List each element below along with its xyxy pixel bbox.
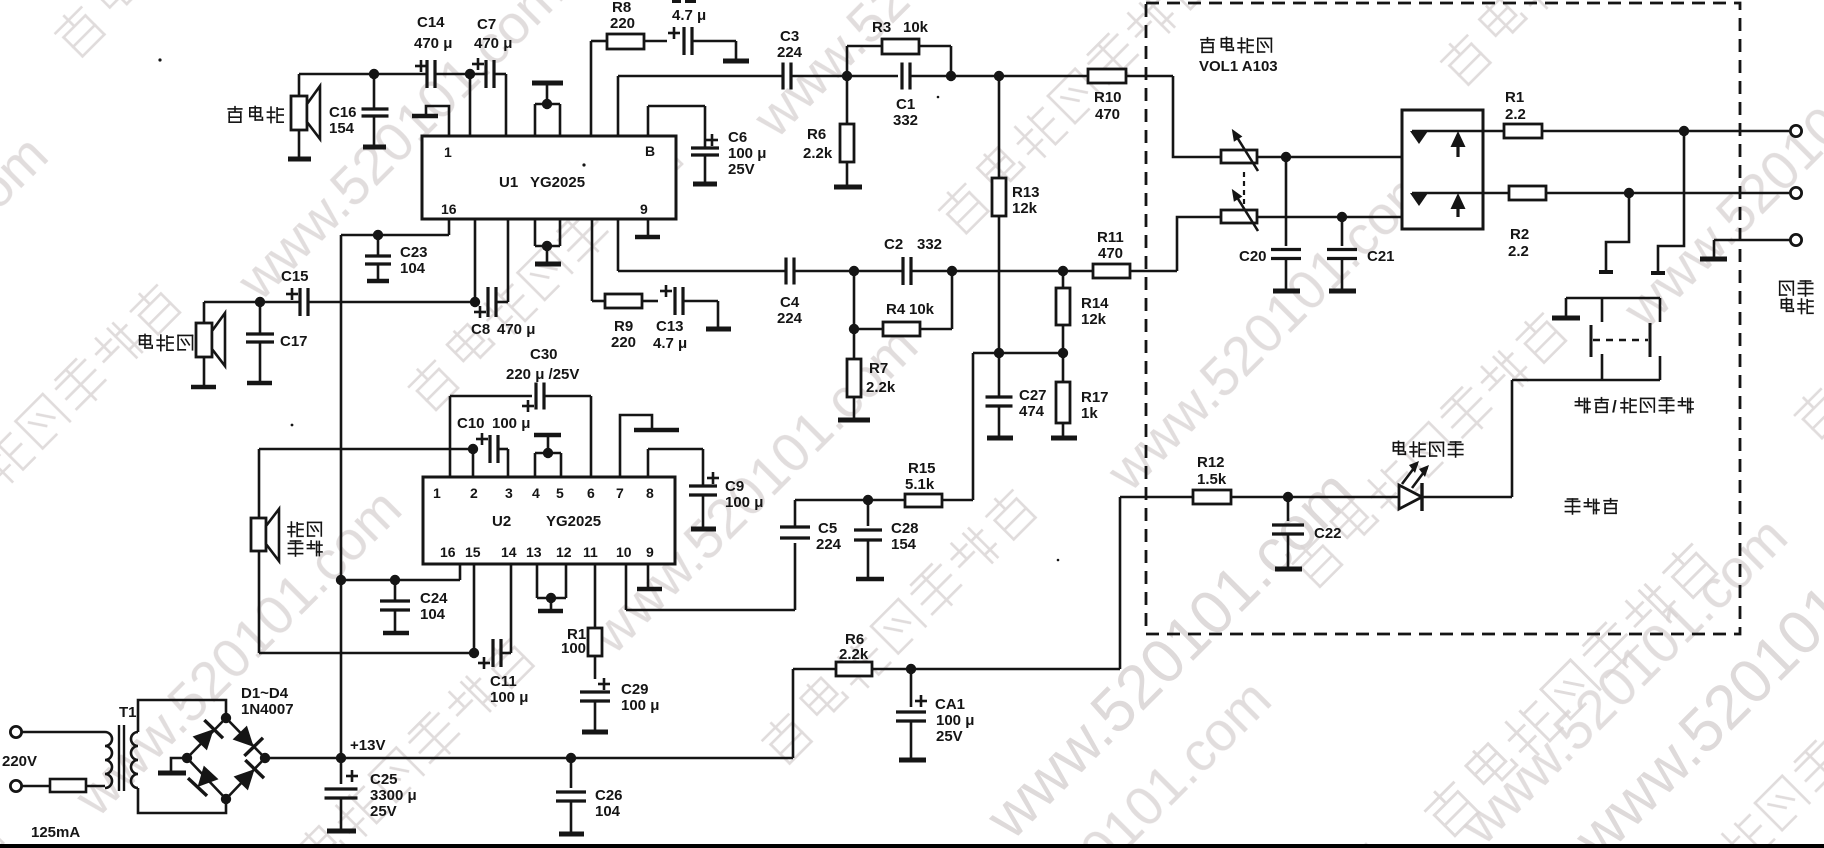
- svg-text:1N4007: 1N4007: [241, 701, 294, 718]
- ground under R6 upper: [834, 185, 862, 190]
- svg-text:U2: U2: [492, 513, 511, 530]
- resistor R3 10k: [847, 39, 951, 76]
- ground under C27: [987, 436, 1013, 441]
- svg-text:224: 224: [777, 44, 803, 61]
- wire secondary top: [138, 700, 226, 732]
- node H2: [1624, 188, 1634, 198]
- svg-text:R13: R13: [1012, 184, 1040, 201]
- node B6: [1058, 266, 1068, 276]
- svg-text:12k: 12k: [1081, 311, 1107, 328]
- ground at U1 pin 9: [647, 219, 650, 236]
- svg-text:R10: R10: [1094, 89, 1122, 106]
- ground under C17: [247, 381, 272, 386]
- capacitor C20: [1271, 157, 1301, 290]
- ground under C9: [691, 527, 716, 532]
- svg-text:VOL1 A103: VOL1 A103: [1199, 58, 1278, 75]
- resistor R7 2.2k: [847, 329, 861, 419]
- svg-text:220: 220: [611, 334, 636, 351]
- terminal AC input 2: [10, 780, 21, 791]
- svg-text:R11: R11: [1097, 229, 1124, 246]
- svg-text:R8: R8: [612, 0, 631, 16]
- wire pot2 to jack: [1257, 216, 1458, 219]
- node B9: [1058, 348, 1068, 358]
- svg-text:C14: C14: [417, 14, 445, 31]
- wire C5 to R15: [795, 499, 905, 502]
- label 工作指示: [1393, 441, 1405, 454]
- resistor R12 1.5k: [1120, 490, 1288, 504]
- ground bent at U1 pin1 top: [426, 106, 449, 136]
- svg-text:220V: 220V: [2, 753, 37, 770]
- node E3: [390, 575, 400, 585]
- resistor R6 2.2k lower: [793, 662, 911, 676]
- capacitor C2 332: [901, 257, 904, 285]
- resistor R17 1k: [1056, 353, 1070, 437]
- svg-text:C4: C4: [780, 294, 800, 311]
- tab ground below U1: [535, 219, 560, 263]
- ground at C13: [706, 327, 731, 332]
- ground under C16: [363, 145, 386, 150]
- svg-text:U1: U1: [499, 174, 518, 191]
- node E4: [469, 648, 479, 658]
- ground at C12: [723, 59, 749, 64]
- capacitor C1 332: [900, 63, 903, 90]
- svg-text:C16: C16: [329, 104, 357, 121]
- svg-text:5.1k: 5.1k: [905, 476, 935, 493]
- node F2: [566, 753, 576, 763]
- transformer T1: [105, 725, 138, 791]
- ground at U2 pin 7: [620, 415, 652, 477]
- svg-text:14: 14: [501, 544, 517, 560]
- resistor R14 12k: [1056, 271, 1070, 353]
- wire U1 pin16 to +13V rail: [341, 219, 449, 235]
- capacitor C29 100u: [580, 678, 610, 731]
- capacitor C26 104: [556, 758, 586, 833]
- wire AC top: [22, 731, 105, 734]
- wire R10 to volume pot: [1173, 76, 1221, 157]
- svg-text:16: 16: [441, 201, 457, 217]
- capacitor C15: [286, 288, 475, 316]
- label 香蕉插头: [1780, 281, 1794, 295]
- svg-text:104: 104: [595, 803, 621, 820]
- capacitor C12 4.7u: [668, 27, 736, 60]
- svg-text:9: 9: [646, 544, 654, 560]
- svg-text:470: 470: [1095, 106, 1120, 123]
- svg-text:4.7 μ: 4.7 μ: [653, 335, 687, 352]
- wire subwoofer to C10: [259, 448, 473, 451]
- wire secondary bottom: [138, 788, 226, 813]
- svg-text:13: 13: [526, 544, 542, 560]
- svg-text:470: 470: [1098, 245, 1123, 262]
- wire right channel row: [204, 301, 300, 304]
- capacitor C8 470u: [474, 219, 508, 318]
- resistor R4 10k: [854, 271, 952, 336]
- node G1: [1281, 152, 1291, 162]
- svg-text:C20: C20: [1239, 248, 1267, 265]
- svg-text:154: 154: [891, 536, 917, 553]
- wire U2 pin16 supply: [341, 579, 460, 582]
- wire U1 pin B: [648, 106, 705, 136]
- node B8: [994, 348, 1004, 358]
- svg-text:C3: C3: [780, 28, 799, 45]
- svg-text:474: 474: [1019, 403, 1045, 420]
- svg-text:1k: 1k: [1081, 405, 1098, 422]
- bent stub from node H2: [1606, 193, 1629, 271]
- svg-text:100 μ: 100 μ: [728, 145, 766, 162]
- wire C2 to R11: [911, 270, 1093, 273]
- svg-text:R17: R17: [1081, 389, 1109, 406]
- label 超重低音: [288, 522, 303, 537]
- svg-text:YG2025: YG2025: [546, 513, 601, 530]
- node D1: [255, 297, 265, 307]
- capacitor C11 100u: [478, 564, 511, 669]
- bridge rectifier D1-D4 1N4007: [182, 713, 270, 804]
- svg-text:R2: R2: [1510, 226, 1529, 243]
- dashed remote control box: [1146, 3, 1740, 634]
- svg-text:25V: 25V: [728, 161, 755, 178]
- node F3: [906, 664, 916, 674]
- svg-text:C21: C21: [1367, 248, 1395, 265]
- svg-text:C30: C30: [530, 346, 558, 363]
- svg-text:2.2k: 2.2k: [803, 145, 833, 162]
- capacitor CA1 100u 25V: [896, 669, 927, 759]
- ground under C28: [856, 577, 884, 582]
- ground under left speaker: [288, 157, 311, 162]
- terminal AC input 1: [10, 726, 21, 737]
- resistor R1 2.2: [1504, 124, 1789, 138]
- svg-text:C25: C25: [370, 771, 398, 788]
- svg-text:220 μ /25V: 220 μ /25V: [506, 366, 579, 383]
- svg-text:7: 7: [616, 485, 624, 501]
- svg-text:16: 16: [440, 544, 456, 560]
- fuse 125mA: [22, 779, 105, 792]
- svg-text:R6: R6: [807, 126, 826, 143]
- wire R6 to R12: [911, 668, 1120, 671]
- label 音量调节 VOL1 A103: [1201, 38, 1214, 53]
- svg-text:3: 3: [505, 485, 513, 501]
- svg-text:3300 μ: 3300 μ: [370, 787, 417, 804]
- node A1: [369, 69, 379, 79]
- svg-text:C29: C29: [621, 681, 649, 698]
- resistor R2 2.2: [1509, 186, 1789, 200]
- LED work indicator: [1288, 461, 1512, 511]
- capacitor C23 104: [365, 235, 391, 280]
- svg-text:224: 224: [777, 310, 803, 327]
- svg-text:470 μ: 470 μ: [497, 321, 535, 338]
- svg-text:100 μ: 100 μ: [621, 697, 659, 714]
- svg-text:25V: 25V: [370, 803, 397, 820]
- subwoofer speaker: [251, 449, 279, 653]
- wire U1 out to C3: [617, 76, 620, 136]
- svg-text:+13V: +13V: [350, 737, 385, 754]
- capacitor C17: [246, 302, 274, 382]
- label 线控器: [1565, 499, 1579, 514]
- capacitor C7 470u: [470, 58, 506, 88]
- node B5: [947, 266, 957, 276]
- svg-text:CA1: CA1: [935, 696, 965, 713]
- ground under C20: [1273, 289, 1300, 294]
- svg-text:R1: R1: [1505, 89, 1524, 106]
- svg-text:12: 12: [556, 544, 572, 560]
- node B4: [849, 266, 859, 276]
- gang dashed link: [1243, 172, 1245, 205]
- svg-text:2.2: 2.2: [1508, 243, 1529, 260]
- ground at bridge minus: [171, 758, 187, 772]
- resistor R8 220: [591, 34, 667, 136]
- capacitor C6 100u 25V: [691, 106, 719, 183]
- node A2: [465, 69, 475, 79]
- svg-text:10: 10: [616, 544, 632, 560]
- ground under C6: [693, 182, 717, 187]
- svg-text:C11: C11: [490, 673, 517, 690]
- svg-text:C28: C28: [891, 520, 919, 537]
- svg-text:B: B: [645, 143, 655, 159]
- resistor R6 2.2k upper: [840, 76, 854, 186]
- svg-text:YG2025: YG2025: [530, 174, 585, 191]
- speaker right channel: [196, 302, 225, 386]
- node J1: [1283, 492, 1293, 502]
- svg-text:C26: C26: [595, 787, 623, 804]
- wire speaker to C14: [299, 73, 427, 76]
- svg-text:C13: C13: [656, 318, 684, 335]
- tab ground above U2: [534, 435, 561, 477]
- wire +13V rail: [265, 757, 793, 760]
- headphone jack box: [1402, 110, 1483, 229]
- bottom scan bar: [0, 844, 1824, 848]
- svg-text:224: 224: [816, 536, 842, 553]
- label 右声道: [140, 334, 153, 348]
- capacitor C25 3300u 25V: [325, 758, 359, 830]
- svg-text:100 μ: 100 μ: [490, 689, 528, 706]
- capacitor C28 154: [854, 500, 882, 578]
- ground under C21: [1329, 289, 1356, 294]
- svg-text:100: 100: [561, 640, 586, 657]
- ground under C23: [367, 279, 389, 284]
- svg-text:T1: T1: [119, 704, 137, 721]
- capacitor C30 220u 25V: [450, 383, 591, 478]
- capacitor C5 224: [780, 500, 810, 538]
- svg-text:C2: C2: [884, 236, 903, 253]
- wire feedback row: [973, 352, 1063, 355]
- ground under C26: [559, 832, 584, 837]
- terminal output ground: [1790, 234, 1801, 245]
- svg-text:C22: C22: [1314, 525, 1342, 542]
- svg-text:R15: R15: [908, 460, 936, 477]
- svg-text:470 μ: 470 μ: [414, 35, 452, 52]
- svg-text:R14: R14: [1081, 295, 1109, 312]
- svg-text:R3: R3: [872, 19, 891, 36]
- svg-text:C1: C1: [896, 96, 915, 113]
- svg-text:104: 104: [400, 260, 426, 277]
- node B2: [946, 71, 956, 81]
- svg-text:C8: C8: [471, 321, 490, 338]
- svg-text:R12: R12: [1197, 454, 1225, 471]
- svg-text:10k: 10k: [903, 19, 929, 36]
- capacitor C13 4.7u: [660, 285, 718, 328]
- node B3: [994, 71, 1004, 81]
- IC U2 YG2025: [423, 477, 675, 564]
- ground under CA1: [899, 758, 926, 763]
- ground under R17: [1051, 436, 1077, 441]
- capacitor C14 470u: [415, 60, 466, 88]
- jack contact row2: [1410, 193, 1509, 217]
- wire +13V vertical: [340, 235, 343, 758]
- label 静音/工作开关: [1575, 398, 1590, 413]
- svg-text:470 μ: 470 μ: [474, 35, 512, 52]
- wire C4 to C2: [794, 270, 903, 273]
- svg-text:C7: C7: [477, 16, 496, 33]
- svg-text:C5: C5: [818, 520, 837, 537]
- bent stub from node H1: [1658, 131, 1684, 272]
- capacitor C22: [1272, 497, 1304, 568]
- svg-text:100 μ: 100 μ: [936, 712, 974, 729]
- svg-text:104: 104: [420, 606, 446, 623]
- tab ground above U1: [532, 83, 563, 136]
- wire R11 to pot2: [1177, 217, 1221, 271]
- svg-text:12k: 12k: [1012, 200, 1038, 217]
- ground under C24: [383, 631, 409, 636]
- wire C3 to C1: [791, 75, 898, 78]
- scan speckles: [158, 58, 161, 61]
- svg-text:2.2k: 2.2k: [866, 379, 896, 396]
- svg-text:R4: R4: [886, 301, 906, 318]
- resistor R15 5.1k: [905, 494, 973, 507]
- node E1: [468, 444, 478, 454]
- jack contact row1: [1410, 131, 1504, 157]
- svg-text:C15: C15: [281, 268, 309, 285]
- potentiometer VOL1a: [1221, 150, 1257, 163]
- svg-text:R9: R9: [614, 318, 633, 335]
- svg-text:154: 154: [329, 120, 355, 137]
- svg-text:100 μ: 100 μ: [725, 494, 763, 511]
- svg-text:220: 220: [610, 15, 635, 32]
- potentiometer VOL1b: [1221, 210, 1257, 223]
- svg-text:C10: C10: [457, 415, 485, 432]
- svg-text:1: 1: [444, 144, 452, 160]
- node B7: [849, 324, 859, 334]
- svg-text:8: 8: [646, 485, 654, 501]
- mute switch: [1512, 298, 1660, 497]
- node B1: [842, 71, 852, 81]
- tab ground below U2: [537, 564, 566, 610]
- op-amp U1 YG2025: [422, 136, 676, 219]
- svg-text:C6: C6: [728, 129, 747, 146]
- svg-text:4.7 μ: 4.7 μ: [672, 7, 706, 24]
- svg-text:2.2: 2.2: [1505, 106, 1526, 123]
- wire C7 to U1 pin stub: [505, 74, 508, 136]
- svg-text:100 μ: 100 μ: [492, 415, 530, 432]
- svg-text:C17: C17: [280, 333, 308, 350]
- svg-text:C24: C24: [420, 590, 448, 607]
- node G2: [1337, 212, 1347, 222]
- svg-text:C23: C23: [400, 244, 428, 261]
- node C23top: [373, 230, 383, 240]
- terminal output 1: [1790, 125, 1801, 136]
- resistor R11 470: [1093, 264, 1177, 278]
- capacitor C3 224: [781, 63, 784, 90]
- node E2: [336, 575, 346, 585]
- ground under R7: [838, 418, 870, 423]
- svg-text:332: 332: [893, 112, 918, 129]
- capacitor C10 100u: [473, 433, 508, 477]
- node E5: [863, 495, 873, 505]
- svg-text:C9: C9: [725, 478, 744, 495]
- node H1: [1679, 126, 1689, 136]
- svg-text:/: /: [1612, 397, 1617, 416]
- svg-text:6: 6: [587, 485, 595, 501]
- ground under right speaker: [191, 385, 216, 390]
- svg-text:2.2k: 2.2k: [839, 646, 869, 663]
- ground under C22: [1275, 567, 1302, 572]
- capacitor C27 474: [986, 353, 1013, 437]
- svg-text:25V: 25V: [936, 728, 963, 745]
- capacitor C9 100u: [648, 449, 719, 528]
- resistor R1 100: [588, 564, 602, 679]
- resistor R10 470: [1088, 69, 1173, 83]
- capacitor C21: [1327, 217, 1357, 290]
- svg-text:4: 4: [532, 485, 540, 501]
- ground under C29: [582, 730, 608, 735]
- terminal output 2: [1790, 187, 1801, 198]
- svg-text:125mA: 125mA: [31, 824, 80, 841]
- wire U2 pin15: [473, 564, 476, 653]
- svg-text:11: 11: [583, 544, 598, 560]
- node D2: [470, 297, 480, 307]
- capacitor C24 104: [380, 580, 410, 632]
- wire node A2 to U1: [469, 74, 472, 136]
- watermark extra runs: [972, 457, 1368, 848]
- resistor R13 12k: [992, 76, 1006, 353]
- wire U1 out2 to C4: [617, 219, 620, 271]
- ground under C25: [327, 829, 356, 834]
- wire C1 to R10: [910, 75, 1088, 78]
- svg-text:1.5k: 1.5k: [1197, 471, 1227, 488]
- svg-text:10k: 10k: [909, 301, 935, 318]
- resistor R9 220: [592, 219, 658, 308]
- wire U2 pin10 to C5: [625, 564, 628, 610]
- svg-text:5: 5: [556, 485, 564, 501]
- label C12 remnant at top edge: [672, 0, 681, 3]
- label 左声道: [228, 107, 242, 123]
- svg-text:C27: C27: [1019, 387, 1047, 404]
- capacitor C16 154: [362, 74, 389, 146]
- wire output ground: [1714, 239, 1790, 242]
- speaker left channel: [291, 74, 320, 158]
- node F1: [336, 753, 346, 763]
- svg-text:15: 15: [465, 544, 481, 560]
- wire pot1 to jack: [1257, 156, 1458, 159]
- svg-text:R7: R7: [869, 360, 888, 377]
- ground at U2 pin 9: [647, 564, 650, 588]
- svg-text:D1~D4: D1~D4: [241, 685, 289, 702]
- ground bar output: [1700, 257, 1727, 262]
- svg-text:1: 1: [433, 485, 441, 501]
- svg-text:332: 332: [917, 236, 942, 253]
- wire subwoofer bottom row: [259, 652, 474, 655]
- capacitor C4 224: [784, 258, 787, 285]
- svg-text:9: 9: [640, 201, 648, 217]
- svg-text:2: 2: [470, 485, 478, 501]
